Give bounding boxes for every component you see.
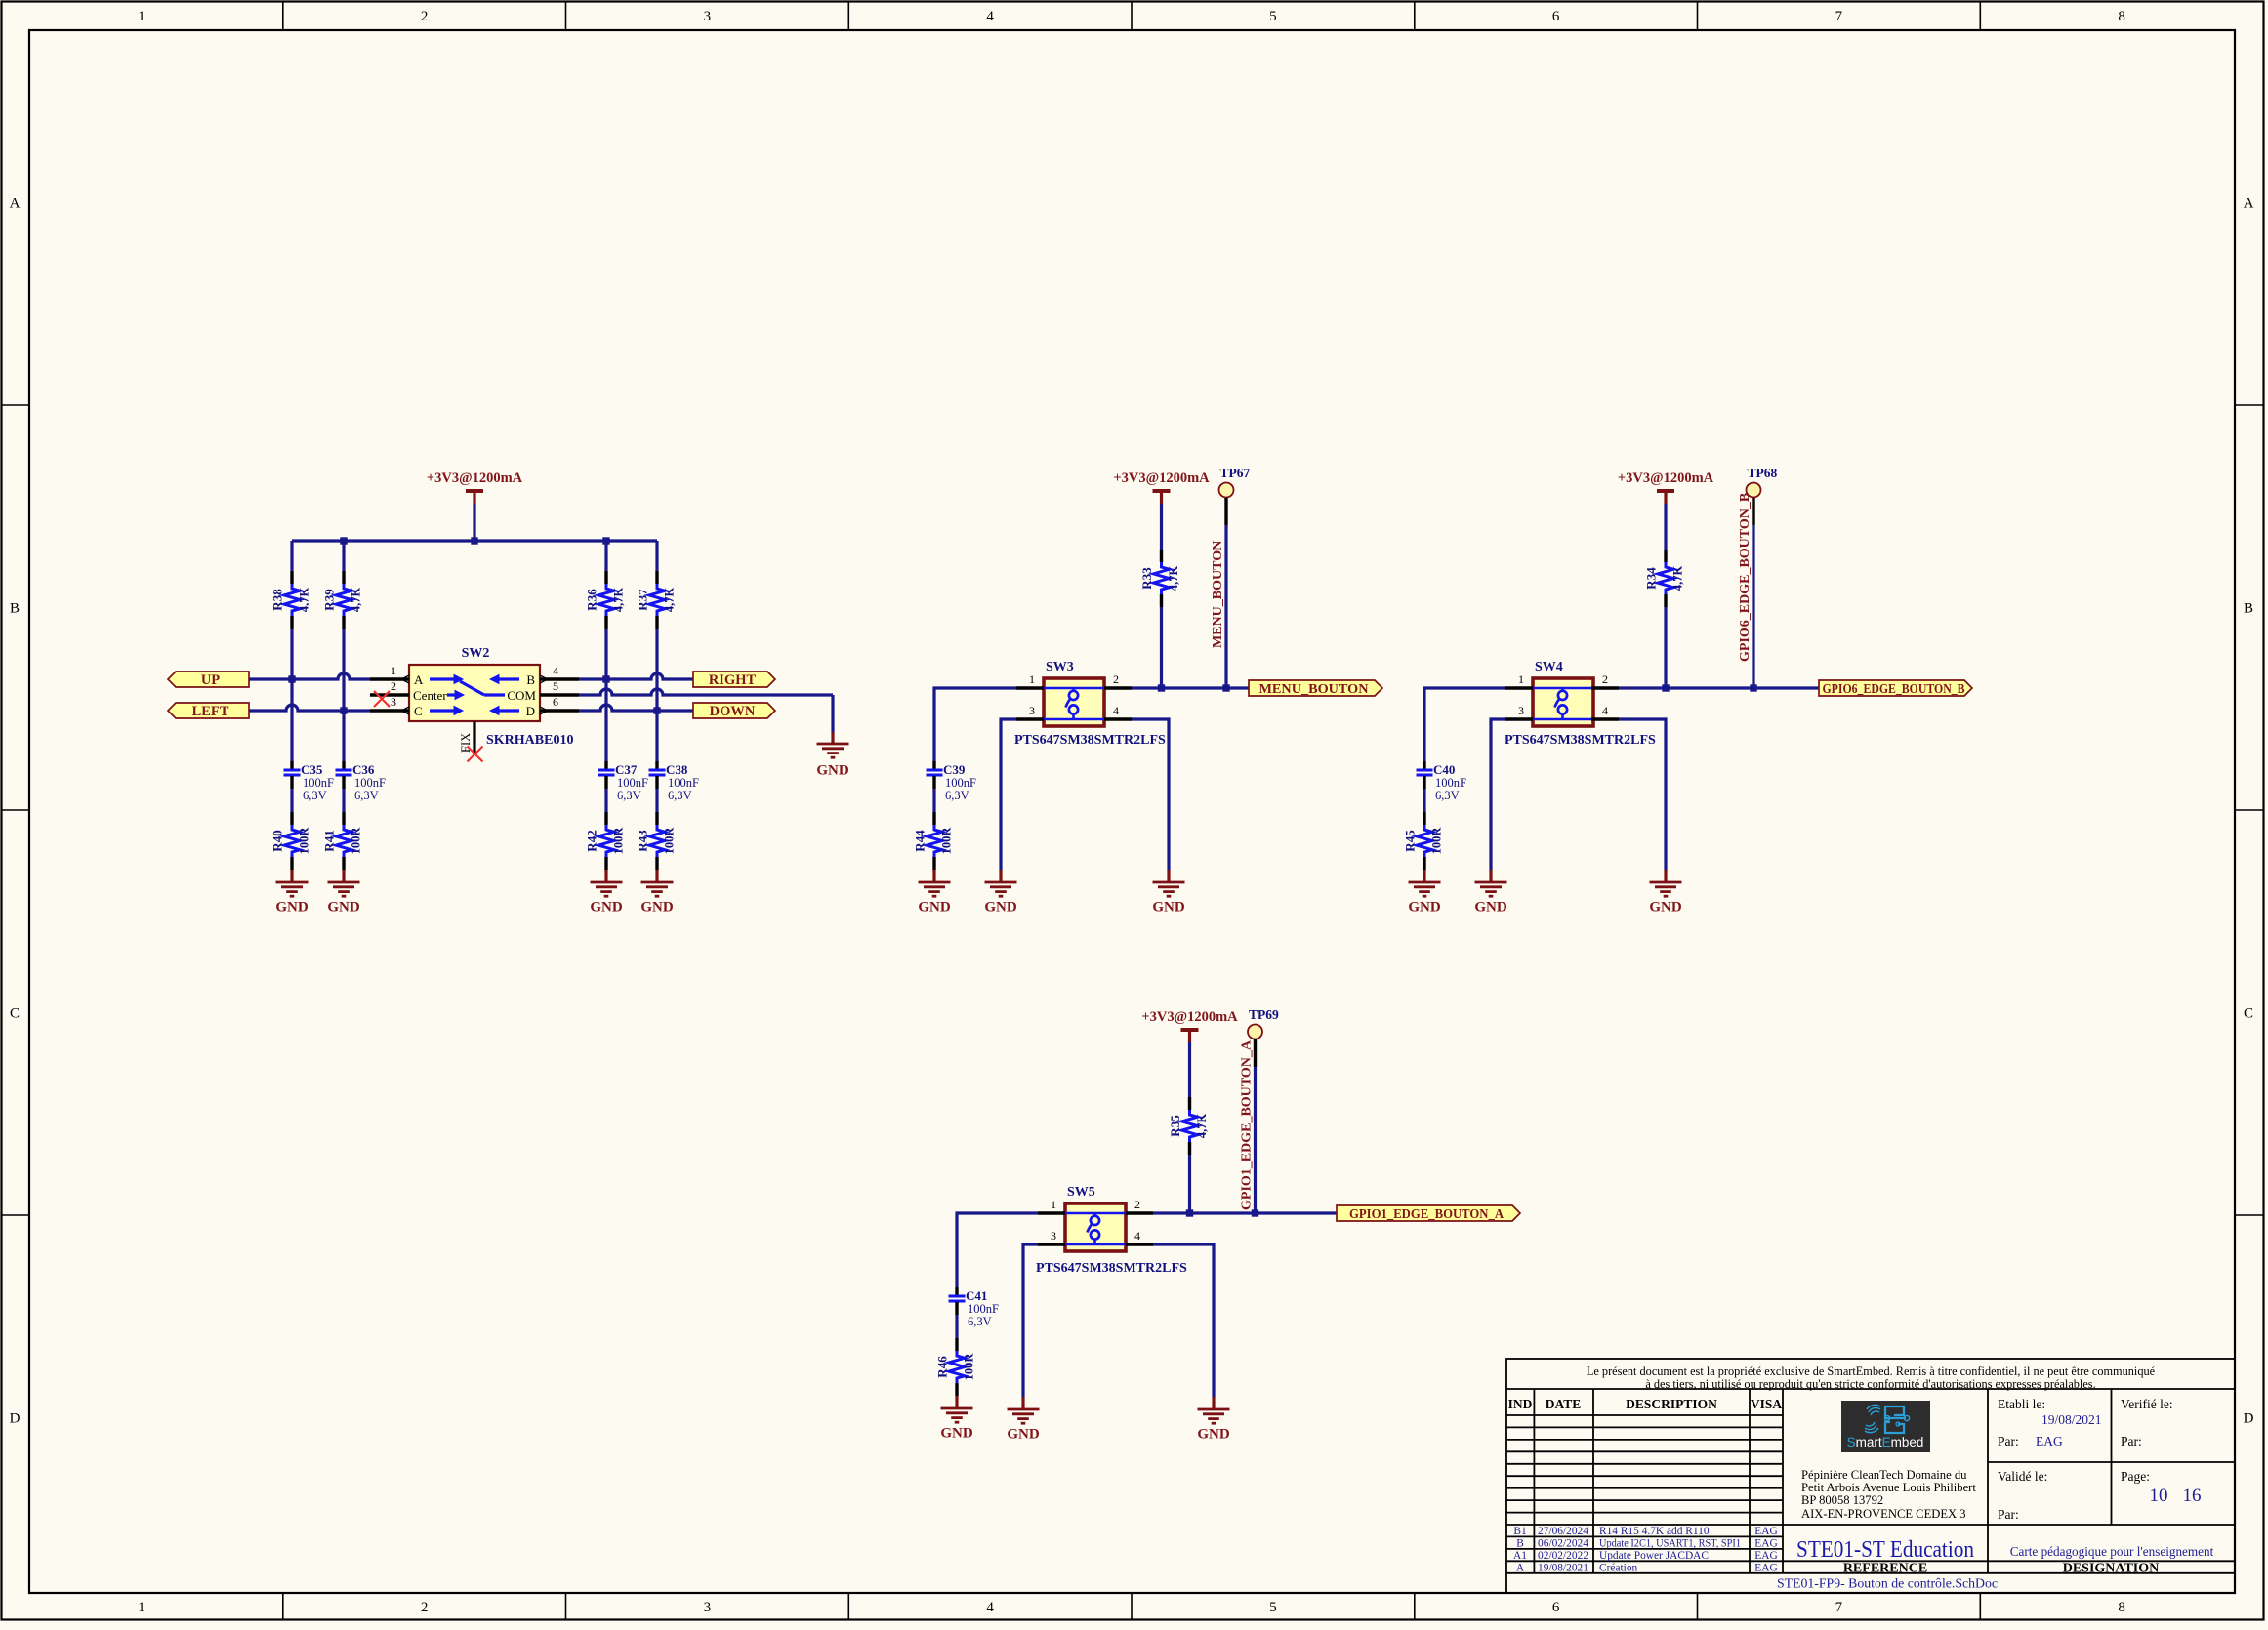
wire SW3 pin3 to gnd	[1001, 719, 1016, 870]
svg-text:1: 1	[1518, 672, 1524, 686]
wire R39 to C36	[342, 629, 345, 761]
svg-text:A: A	[10, 196, 21, 212]
svg-text:2: 2	[1113, 672, 1119, 686]
svg-text:5: 5	[553, 679, 558, 693]
svg-text:5: 5	[1269, 1600, 1277, 1615]
svg-text:GND: GND	[1152, 900, 1185, 916]
svg-text:EAG: EAG	[1754, 1550, 1777, 1562]
svg-text:STE01-FP9- Bouton de contrôle.: STE01-FP9- Bouton de contrôle.SchDoc	[1777, 1576, 1998, 1591]
svg-text:4,7K: 4,7K	[350, 588, 363, 613]
resistor R42	[585, 812, 626, 870]
svg-text:R14 R15 4.7K add R110: R14 R15 4.7K add R110	[1599, 1526, 1710, 1537]
wire bus to resistor x=352	[342, 541, 345, 571]
svg-text:4,7K: 4,7K	[612, 588, 626, 613]
svg-text:DATE: DATE	[1546, 1397, 1582, 1411]
power +3V3 R34 rail	[1618, 470, 1714, 504]
svg-text:SmartEmbed: SmartEmbed	[1847, 1435, 1924, 1449]
svg-text:4,7K: 4,7K	[663, 588, 677, 613]
svg-text:GND: GND	[1649, 900, 1682, 916]
svg-text:Carte pédagogique pour l'ensei: Carte pédagogique pour l'enseignement	[2010, 1544, 2214, 1559]
svg-text:Update I2C1, USART1, RST, SPI1: Update I2C1, USART1, RST, SPI1	[1599, 1538, 1741, 1550]
svg-text:MENU_BOUTON: MENU_BOUTON	[1211, 541, 1225, 648]
svg-text:7: 7	[1835, 9, 1843, 24]
svg-text:REFERENCE: REFERENCE	[1843, 1562, 1927, 1576]
wire SW5 pin2 to port	[1153, 1211, 1337, 1214]
row ticks left/right	[2, 405, 2263, 1215]
svg-text:4,7K: 4,7K	[1195, 1114, 1209, 1139]
svg-text:1: 1	[138, 1600, 145, 1615]
test point TP69	[1248, 1007, 1279, 1067]
svg-text:C40: C40	[1433, 762, 1455, 777]
svg-text:100R: 100R	[350, 827, 363, 855]
svg-text:1: 1	[1029, 672, 1035, 686]
svg-text:B: B	[526, 672, 535, 687]
test point TP67	[1219, 466, 1251, 525]
svg-text:100R: 100R	[612, 827, 626, 855]
wire R36 to C37	[604, 629, 607, 761]
svg-text:PTS647SM38SMTR2LFS: PTS647SM38SMTR2LFS	[1036, 1261, 1187, 1276]
svg-text:4,7K: 4,7K	[298, 588, 311, 613]
svg-text:100nF: 100nF	[945, 776, 976, 790]
svg-text:R44: R44	[913, 830, 928, 852]
svg-text:COM: COM	[507, 688, 536, 703]
svg-text:GND: GND	[1007, 1427, 1040, 1443]
svg-text:C: C	[2244, 1006, 2253, 1022]
wire SW5 pin4 to gnd	[1153, 1244, 1214, 1397]
svg-text:R41: R41	[322, 830, 337, 851]
svg-text:02/02/2022: 02/02/2022	[1538, 1550, 1588, 1562]
wire C41 to R46	[955, 1315, 958, 1338]
svg-text:+3V3@1200mA: +3V3@1200mA	[1618, 470, 1714, 486]
wire R37 to C38	[655, 629, 658, 761]
svg-text:Le présent document est la pro: Le présent document est la propriété exc…	[1587, 1365, 2156, 1378]
svg-text:19/08/2021: 19/08/2021	[1538, 1563, 1588, 1574]
ground	[816, 732, 849, 779]
svg-text:100nF: 100nF	[354, 776, 386, 790]
wire power to R33	[1160, 504, 1163, 550]
svg-text:27/06/2024: 27/06/2024	[1538, 1526, 1588, 1537]
svg-text:IND: IND	[1508, 1397, 1533, 1411]
ground	[1474, 870, 1507, 916]
wire bus to resistor x=621	[604, 541, 607, 571]
pins SW4	[1505, 688, 1619, 719]
svg-text:6: 6	[1552, 9, 1560, 24]
title block	[1506, 1359, 2235, 1593]
svg-text:4: 4	[986, 9, 994, 24]
no-connect X	[374, 691, 390, 707]
svg-text:LEFT: LEFT	[192, 704, 229, 719]
svg-text:Par:: Par:	[2121, 1434, 2142, 1448]
test point TP68	[1747, 466, 1778, 525]
svg-text:PTS647SM38SMTR2LFS: PTS647SM38SMTR2LFS	[1505, 733, 1656, 748]
wire UP row	[249, 673, 370, 679]
wire power to R35	[1188, 1042, 1191, 1097]
svg-text:GPIO1_EDGE_BOUTON_A: GPIO1_EDGE_BOUTON_A	[1240, 1039, 1255, 1210]
svg-text:GND: GND	[327, 900, 360, 916]
switch SW4	[1533, 660, 1593, 726]
svg-text:DESIGNATION: DESIGNATION	[2063, 1562, 2160, 1576]
ground	[275, 870, 309, 916]
resistor R39	[322, 571, 363, 629]
svg-text:100R: 100R	[963, 1353, 976, 1381]
svg-text:Par:: Par:	[1998, 1434, 2019, 1448]
wire SW3 pin2 to port	[1132, 686, 1249, 689]
resistor R46	[935, 1338, 976, 1396]
svg-text:C38: C38	[666, 762, 688, 777]
ground	[1152, 870, 1185, 916]
svg-text:D: D	[526, 704, 535, 718]
svg-text:Validé le:: Validé le:	[1998, 1469, 2047, 1484]
svg-text:100nF: 100nF	[303, 776, 334, 790]
svg-text:Pépinière CleanTech Domaine du: Pépinière CleanTech Domaine du	[1801, 1468, 1967, 1482]
wire COM down	[831, 695, 834, 732]
svg-text:2: 2	[1134, 1198, 1140, 1211]
svg-text:16: 16	[2183, 1486, 2202, 1506]
svg-text:1: 1	[391, 664, 396, 677]
wire SW5 pin1 to C41	[957, 1213, 1038, 1287]
wire R35 to node	[1188, 1155, 1191, 1213]
svg-text:19/08/2021: 19/08/2021	[2041, 1412, 2102, 1427]
svg-text:SKRHABE010: SKRHABE010	[486, 733, 573, 748]
ground	[918, 870, 951, 916]
wire power stem to bus	[473, 504, 475, 541]
svg-text:R43: R43	[636, 830, 650, 852]
svg-text:100R: 100R	[940, 827, 954, 855]
switch SW2	[370, 646, 579, 721]
svg-text:GPIO1_EDGE_BOUTON_A: GPIO1_EDGE_BOUTON_A	[1349, 1206, 1504, 1221]
svg-text:6,3V: 6,3V	[668, 789, 692, 802]
port GPIO6_EDGE_BOUTON_B	[1819, 680, 1972, 696]
svg-text:6: 6	[1552, 1600, 1560, 1615]
svg-text:4: 4	[1602, 704, 1608, 717]
svg-text:TP67: TP67	[1220, 466, 1251, 480]
resistor R33	[1139, 550, 1180, 607]
port DOWN	[693, 703, 775, 719]
wire SW4 pin3 to gnd	[1491, 719, 1505, 870]
svg-text:2: 2	[421, 9, 429, 24]
svg-text:EAG: EAG	[1754, 1563, 1777, 1574]
svg-text:GND: GND	[918, 900, 951, 916]
svg-text:R40: R40	[270, 830, 285, 851]
svg-text:R39: R39	[322, 589, 337, 611]
svg-text:PTS647SM38SMTR2LFS: PTS647SM38SMTR2LFS	[1014, 733, 1166, 748]
wire SW4 pin1 to C40	[1424, 688, 1505, 761]
wire B row to RIGHT	[579, 673, 693, 679]
svg-text:SW3: SW3	[1046, 660, 1074, 674]
row labels	[10, 196, 2254, 1427]
wire TP69 down	[1254, 1067, 1257, 1213]
svg-text:EAG: EAG	[2036, 1434, 2063, 1448]
svg-text:D: D	[2244, 1411, 2254, 1427]
svg-text:A: A	[2244, 196, 2254, 212]
power +3V3 R35 rail	[1141, 1009, 1238, 1042]
wire TP68 down	[1752, 525, 1754, 688]
svg-text:4: 4	[1134, 1229, 1140, 1243]
svg-text:B: B	[10, 601, 20, 617]
svg-text:1: 1	[138, 9, 145, 24]
svg-text:GND: GND	[640, 900, 674, 916]
svg-text:DOWN: DOWN	[710, 704, 756, 719]
wire C35 to R40	[290, 789, 293, 812]
port MENU_BOUTON	[1249, 680, 1382, 696]
svg-text:UP: UP	[201, 672, 220, 688]
svg-text:R42: R42	[585, 830, 599, 851]
svg-text:06/02/2024: 06/02/2024	[1538, 1538, 1588, 1550]
svg-text:8: 8	[2118, 9, 2125, 24]
wire SW4 pin2 to port	[1619, 686, 1819, 689]
wire R38 to C35	[290, 629, 293, 761]
svg-text:SW4: SW4	[1535, 660, 1563, 674]
svg-text:SW2: SW2	[462, 646, 490, 661]
svg-text:GND: GND	[1197, 1427, 1230, 1443]
svg-text:C41: C41	[966, 1288, 987, 1303]
wire R33 to node	[1160, 607, 1163, 688]
resistor R40	[270, 812, 311, 870]
wire TP67 down	[1224, 525, 1227, 688]
svg-text:100R: 100R	[663, 827, 677, 855]
svg-text:2: 2	[391, 679, 396, 693]
svg-text:6,3V: 6,3V	[354, 789, 379, 802]
svg-text:GND: GND	[816, 763, 849, 779]
svg-text:Par:: Par:	[1998, 1507, 2019, 1522]
svg-text:R35: R35	[1168, 1115, 1182, 1137]
svg-text:R33: R33	[1139, 567, 1154, 590]
svg-text:à des tiers, ni utilisé ou rep: à des tiers, ni utilisé ou reproduit qu'…	[1645, 1377, 2095, 1391]
svg-text:C: C	[10, 1006, 20, 1022]
svg-text:R37: R37	[636, 589, 650, 611]
wire power to R34	[1664, 504, 1667, 550]
capacitor C41	[949, 1287, 1000, 1328]
resistor R37	[636, 571, 677, 629]
wire SW5 pin3 to gnd	[1023, 1244, 1038, 1397]
capacitor C37	[598, 761, 649, 802]
svg-text:4: 4	[1113, 704, 1119, 717]
wire C39 to R44	[932, 789, 935, 812]
svg-text:GND: GND	[1474, 900, 1507, 916]
svg-text:AIX-EN-PROVENCE CEDEX 3: AIX-EN-PROVENCE CEDEX 3	[1801, 1507, 1966, 1521]
svg-text:2: 2	[1602, 672, 1608, 686]
svg-text:TP68: TP68	[1748, 466, 1778, 480]
svg-text:GND: GND	[275, 900, 309, 916]
svg-text:100R: 100R	[1430, 827, 1444, 855]
pins SW3	[1016, 688, 1132, 719]
svg-text:3: 3	[704, 1600, 712, 1615]
ground	[1649, 870, 1682, 916]
wire bus to resistor x=673	[655, 541, 658, 571]
svg-text:8: 8	[2118, 1600, 2125, 1615]
port UP	[168, 672, 249, 688]
svg-text:Update Power JACDAC: Update Power JACDAC	[1599, 1550, 1709, 1562]
power +3V3 SW2 rail	[427, 470, 523, 504]
capacitor C40	[1417, 761, 1467, 802]
svg-text:Page:: Page:	[2121, 1469, 2150, 1484]
svg-text:6,3V: 6,3V	[1435, 789, 1460, 802]
svg-text:A: A	[1516, 1563, 1525, 1574]
svg-text:7: 7	[1835, 1600, 1843, 1615]
svg-text:GND: GND	[1408, 900, 1441, 916]
svg-text:STE01-ST Education: STE01-ST Education	[1796, 1537, 1974, 1563]
svg-text:100R: 100R	[298, 827, 311, 855]
capacitor C36	[336, 761, 387, 802]
column ticks top/bottom	[283, 2, 1981, 1620]
resistor R35	[1168, 1097, 1209, 1155]
svg-text:C36: C36	[352, 762, 375, 777]
ground	[1197, 1397, 1230, 1443]
svg-text:10: 10	[2150, 1486, 2168, 1506]
wire C37 to R42	[604, 789, 607, 812]
ground	[1007, 1397, 1040, 1443]
svg-text:3: 3	[1051, 1229, 1056, 1243]
svg-text:MENU_BOUTON: MENU_BOUTON	[1259, 681, 1369, 696]
ground	[327, 870, 360, 916]
svg-text:B1: B1	[1513, 1526, 1527, 1537]
svg-text:R46: R46	[935, 1356, 950, 1378]
port GPIO1_EDGE_BOUTON_A	[1337, 1205, 1520, 1221]
svg-text:C35: C35	[301, 762, 323, 777]
svg-text:+3V3@1200mA: +3V3@1200mA	[427, 470, 523, 486]
wire C40 to R45	[1423, 789, 1425, 812]
svg-text:EAG: EAG	[1754, 1526, 1777, 1537]
svg-text:R45: R45	[1403, 830, 1418, 852]
svg-text:4: 4	[986, 1600, 994, 1615]
ground	[590, 870, 623, 916]
svg-text:6,3V: 6,3V	[945, 789, 969, 802]
svg-text:A: A	[414, 672, 424, 687]
port LEFT	[168, 703, 249, 719]
wire LEFT row	[249, 705, 370, 711]
logo SmartEmbed	[1841, 1401, 1930, 1452]
svg-text:3: 3	[391, 695, 396, 709]
svg-text:3: 3	[1029, 704, 1035, 717]
svg-text:Petit Arbois Avenue Louis Phil: Petit Arbois Avenue Louis Philibert	[1801, 1481, 1976, 1494]
svg-text:3: 3	[1518, 704, 1524, 717]
resistor R41	[322, 812, 363, 870]
resistor R45	[1403, 812, 1444, 870]
resistor R43	[636, 812, 677, 870]
svg-text:SW5: SW5	[1067, 1185, 1095, 1200]
svg-text:1: 1	[1051, 1198, 1056, 1211]
pin FIX SW2	[473, 721, 475, 754]
svg-text:B: B	[2244, 601, 2253, 617]
svg-text:6,3V: 6,3V	[303, 789, 327, 802]
capacitor C35	[284, 761, 335, 802]
svg-text:5: 5	[1269, 9, 1277, 24]
wire R34 to node	[1664, 607, 1667, 688]
svg-text:2: 2	[421, 1600, 429, 1615]
pins SW5	[1038, 1213, 1153, 1244]
svg-text:100nF: 100nF	[1435, 776, 1466, 790]
svg-text:EAG: EAG	[1754, 1538, 1777, 1550]
svg-text:Etabli le:: Etabli le:	[1998, 1397, 2045, 1411]
ground	[984, 870, 1017, 916]
svg-text:R36: R36	[585, 589, 599, 611]
svg-text:C39: C39	[943, 762, 966, 777]
power +3V3 R33 rail	[1113, 470, 1210, 504]
no-connect X	[468, 747, 483, 762]
svg-text:GPIO6_EDGE_BOUTON_B: GPIO6_EDGE_BOUTON_B	[1738, 493, 1753, 662]
svg-text:+3V3@1200mA: +3V3@1200mA	[1141, 1009, 1238, 1025]
svg-text:Verifié le:: Verifié le:	[2121, 1397, 2173, 1411]
port RIGHT	[693, 672, 775, 688]
resistor R38	[270, 571, 311, 629]
wire D row to DOWN	[579, 705, 693, 711]
svg-text:C37: C37	[615, 762, 638, 777]
svg-text:RIGHT: RIGHT	[709, 672, 757, 688]
svg-text:6,3V: 6,3V	[617, 789, 641, 802]
svg-text:4,7K: 4,7K	[1167, 566, 1180, 591]
wire C38 to R43	[655, 789, 658, 812]
capacitor C39	[927, 761, 977, 802]
ground	[940, 1396, 973, 1442]
svg-text:100nF: 100nF	[968, 1302, 999, 1316]
svg-text:A1: A1	[1513, 1550, 1527, 1562]
svg-text:D: D	[10, 1411, 21, 1427]
svg-text:GND: GND	[984, 900, 1017, 916]
ground	[1408, 870, 1441, 916]
svg-text:GND: GND	[940, 1426, 973, 1442]
svg-text:TP69: TP69	[1249, 1007, 1279, 1022]
svg-text:6: 6	[553, 695, 558, 709]
svg-text:DESCRIPTION: DESCRIPTION	[1626, 1397, 1717, 1411]
svg-text:VISA: VISA	[1751, 1397, 1783, 1411]
switch SW5	[1065, 1185, 1126, 1251]
wire C36 to R41	[342, 789, 345, 812]
svg-text:R34: R34	[1644, 567, 1659, 590]
svg-text:GND: GND	[590, 900, 623, 916]
wire COM row	[579, 689, 833, 695]
svg-text:100nF: 100nF	[617, 776, 648, 790]
svg-text:GPIO6_EDGE_BOUTON_B: GPIO6_EDGE_BOUTON_B	[1823, 681, 1965, 696]
svg-text:6,3V: 6,3V	[968, 1315, 992, 1328]
wire SW3 pin1 to C39	[934, 688, 1016, 761]
svg-text:Création: Création	[1599, 1563, 1638, 1574]
svg-text:BP 80058 13792: BP 80058 13792	[1801, 1493, 1883, 1507]
resistor R34	[1644, 550, 1685, 607]
capacitor C38	[649, 761, 700, 802]
svg-text:100nF: 100nF	[668, 776, 699, 790]
resistor R44	[913, 812, 954, 870]
svg-text:B: B	[1516, 1538, 1524, 1550]
svg-text:4: 4	[553, 664, 558, 677]
svg-text:R38: R38	[270, 589, 285, 611]
wire SW4 pin4 to gnd	[1619, 719, 1666, 870]
wire top bus	[292, 539, 657, 542]
svg-text:3: 3	[704, 9, 712, 24]
wire SW3 pin4 to gnd	[1132, 719, 1169, 870]
svg-text:C: C	[414, 704, 423, 718]
svg-text:4,7K: 4,7K	[1671, 566, 1685, 591]
ground	[640, 870, 674, 916]
resistor R36	[585, 571, 626, 629]
svg-text:+3V3@1200mA: +3V3@1200mA	[1113, 470, 1210, 486]
switch SW3	[1044, 660, 1104, 726]
wire bus to resistor x=299	[290, 541, 293, 571]
svg-text:Center: Center	[413, 688, 447, 703]
